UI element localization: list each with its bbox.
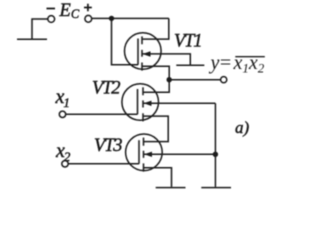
svg-text:x1: x1 bbox=[55, 86, 70, 110]
terminal + of Ec bbox=[84, 4, 92, 22]
svg-text:a): a) bbox=[235, 118, 250, 137]
svg-text:y=: y= bbox=[209, 52, 232, 74]
wire VT2 source to VT3 drain bbox=[143, 116, 168, 142]
wire substrate rail down bbox=[214, 103, 216, 187]
terminal x1 bbox=[59, 111, 65, 117]
svg-text:x2: x2 bbox=[55, 140, 71, 164]
svg-text:VT3: VT3 bbox=[94, 136, 122, 156]
label y = x1x2 (inverted) bbox=[209, 52, 265, 76]
transistor VT2 bbox=[122, 84, 159, 122]
node substrate rail bbox=[213, 152, 218, 157]
wire VT3 substrate to rail node bbox=[144, 153, 216, 155]
svg-text:VT2: VT2 bbox=[92, 79, 120, 99]
wire VT1 source to output node bbox=[142, 66, 169, 79]
wire VT1 substrate to ground bbox=[142, 54, 190, 65]
terminal - of Ec bbox=[47, 9, 56, 23]
node output y bbox=[167, 77, 172, 82]
terminal x2 bbox=[62, 161, 68, 167]
wire VT2 substrate to rail bbox=[143, 102, 215, 104]
svg-text:VT1: VT1 bbox=[174, 31, 201, 51]
wire VT3 source to ground bbox=[144, 168, 172, 187]
ground (substrate rail) bbox=[201, 187, 231, 189]
svg-text:x1x2: x1x2 bbox=[233, 52, 265, 76]
wire top rail to VT1 gate bbox=[112, 18, 139, 64]
ground (negative terminal of Ec) bbox=[17, 19, 48, 39]
wire output node to VT2 drain bbox=[143, 80, 169, 93]
wire +Ec rail bbox=[91, 17, 169, 19]
node top rail bbox=[109, 16, 114, 21]
ground (VT3 source) bbox=[156, 187, 186, 189]
wire top rail to VT1 drain bbox=[142, 18, 169, 39]
wire output bbox=[169, 79, 220, 81]
wire x2 to VT3 gate bbox=[68, 163, 139, 165]
terminal output y bbox=[221, 77, 227, 83]
svg-text:EC: EC bbox=[59, 1, 80, 21]
transistor VT1 bbox=[125, 33, 162, 71]
wire x1 to VT2 gate bbox=[66, 113, 138, 115]
ground (VT1 substrate) bbox=[176, 64, 204, 66]
transistor VT3 bbox=[126, 134, 163, 172]
